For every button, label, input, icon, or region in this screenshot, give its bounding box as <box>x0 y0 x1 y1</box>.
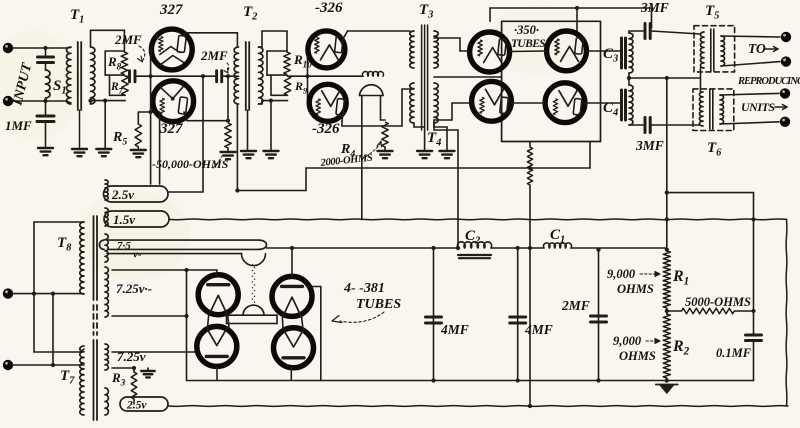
svg-text:-326: -326 <box>312 121 340 137</box>
svg-text:4MF: 4MF <box>524 322 553 337</box>
svg-text:1MF: 1MF <box>5 118 32 133</box>
svg-text:1.5v: 1.5v <box>113 212 135 227</box>
svg-text:·350·: ·350· <box>514 23 539 37</box>
svg-text:0.1MF: 0.1MF <box>716 346 752 360</box>
svg-text:TUBES: TUBES <box>511 38 545 50</box>
svg-text:327: 327 <box>159 2 183 18</box>
svg-text:v-: v- <box>133 249 142 261</box>
svg-text:3MF: 3MF <box>640 0 669 15</box>
svg-text:2MF: 2MF <box>561 298 590 313</box>
svg-text:5000-OHMS: 5000-OHMS <box>685 295 751 309</box>
svg-text:2MF: 2MF <box>114 32 142 47</box>
svg-text:327: 327 <box>159 121 183 137</box>
svg-text:9,000: 9,000 <box>607 267 636 281</box>
svg-text:TO: TO <box>748 41 766 56</box>
svg-text:TUBES: TUBES <box>356 297 401 312</box>
svg-text:9,000: 9,000 <box>613 334 642 348</box>
svg-text:3MF: 3MF <box>635 138 664 153</box>
svg-text:-326: -326 <box>315 0 343 16</box>
svg-text:2.5v: 2.5v <box>126 400 147 412</box>
svg-text:7.25v·-: 7.25v·- <box>116 281 152 296</box>
svg-text:UNITS: UNITS <box>741 100 775 114</box>
svg-text:4- -381: 4- -381 <box>343 281 385 296</box>
svg-text:2.5v: 2.5v <box>111 187 134 202</box>
svg-text:REPRODUCING: REPRODUCING <box>737 76 800 87</box>
svg-text:OHMS: OHMS <box>617 282 654 296</box>
svg-text:2MF: 2MF <box>200 48 228 63</box>
svg-text:4MF: 4MF <box>440 322 469 337</box>
svg-text:OHMS: OHMS <box>619 349 656 363</box>
svg-text:7·5: 7·5 <box>117 240 131 252</box>
